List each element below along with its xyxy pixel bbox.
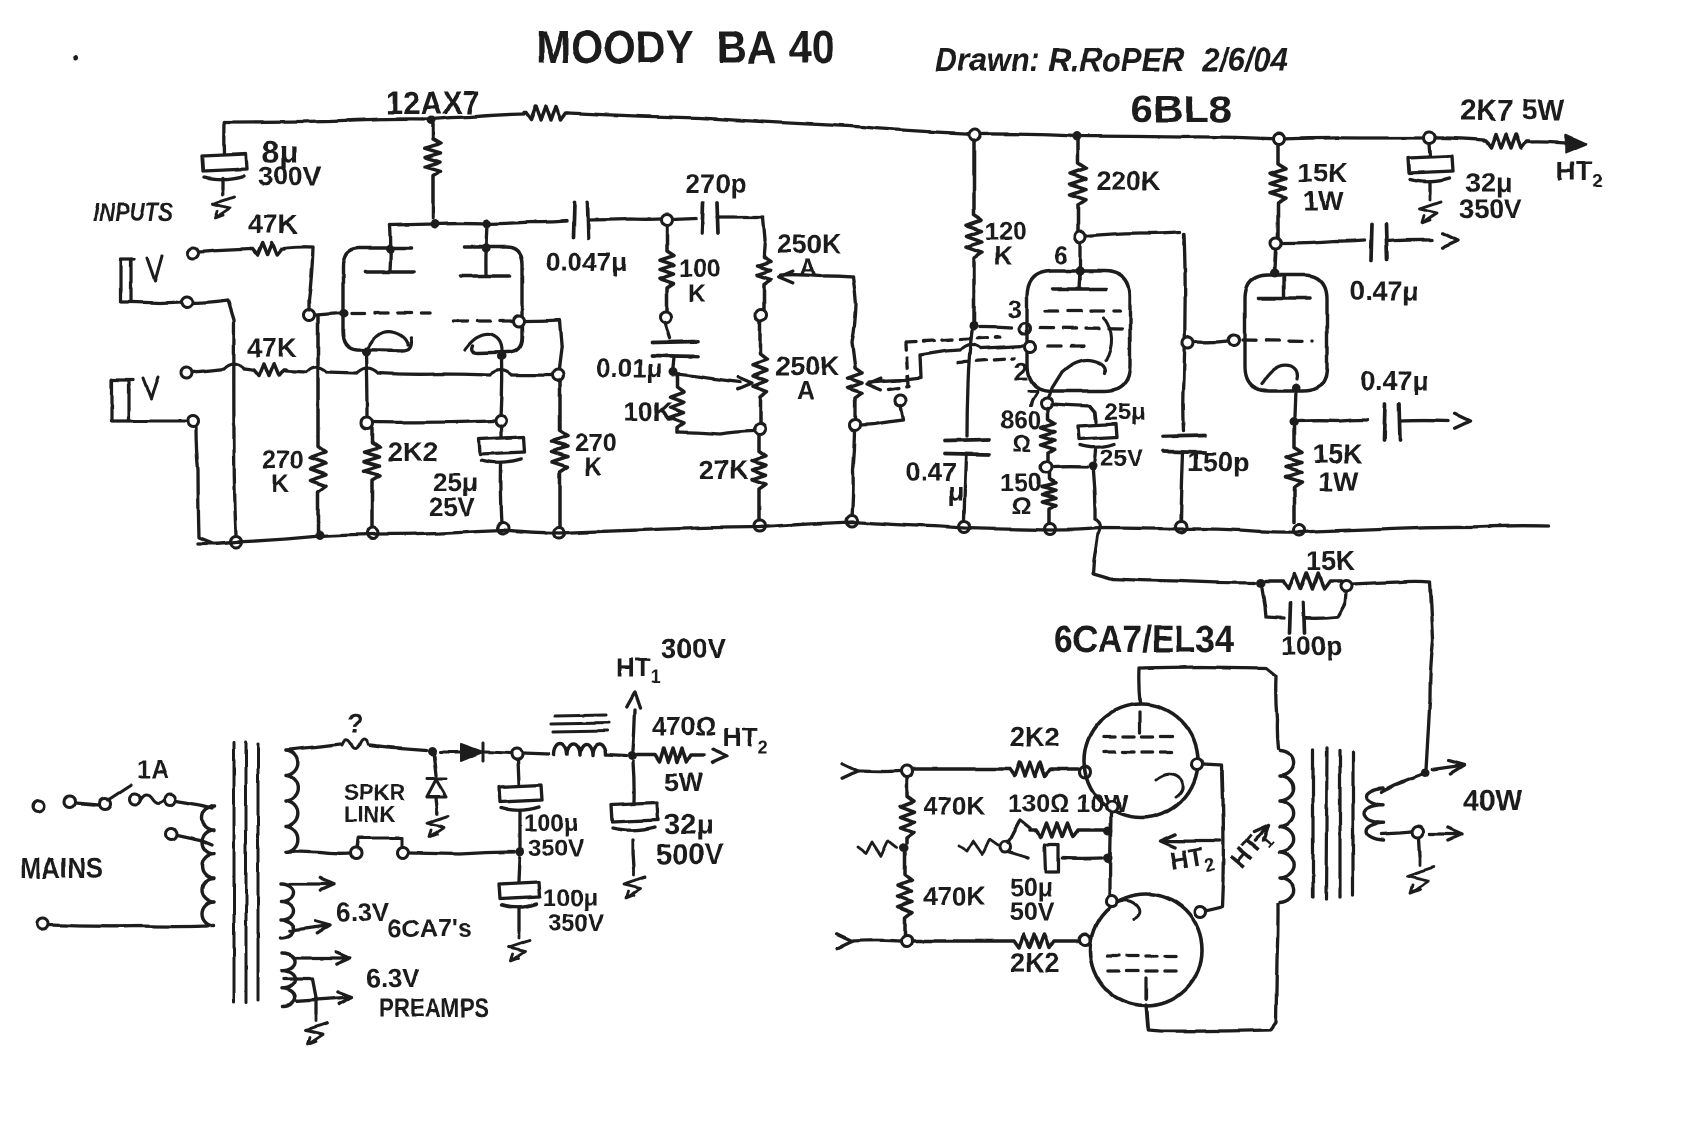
wire cathode vertical — [1110, 813, 1111, 895]
wire fuse to primary — [176, 801, 212, 808]
switch lever — [108, 785, 131, 800]
svg-text:12AX7: 12AX7 — [386, 85, 480, 121]
junction rail/32u — [1424, 133, 1435, 144]
wire thermistor to diode node — [370, 745, 426, 750]
svg-text:0.047μ: 0.047μ — [546, 247, 627, 277]
svg-text:270p: 270p — [685, 169, 747, 199]
output transformer secondary — [1364, 788, 1383, 840]
wire HT2 top rail (left of 47K 1W) — [224, 114, 524, 122]
wire 0.01u to junction — [673, 357, 674, 368]
EL34 lower plate tick — [1144, 978, 1147, 999]
svg-text:HT2: HT2 — [1556, 156, 1603, 192]
terminal EL34 upper cathode — [1107, 802, 1118, 813]
terminal mains L2 — [65, 797, 76, 808]
junction 0.47u / rail — [959, 522, 970, 533]
wire 100p left leg — [1262, 588, 1284, 618]
svg-text:HT1: HT1 — [1225, 823, 1278, 877]
wire left cathode lead — [366, 354, 367, 419]
wire node down to 0.47u — [967, 331, 972, 436]
junction left plate lead/envelope — [386, 245, 395, 254]
12AX7 left plate bar — [365, 270, 414, 274]
svg-text:6CA7/EL34: 6CA7/EL34 — [1054, 619, 1234, 661]
svg-text:100μ: 100μ — [524, 810, 579, 837]
diode rectifier — [440, 743, 510, 761]
shield outline (dashed) top — [906, 337, 1000, 342]
wire rectifier to choke — [523, 753, 549, 754]
bias feed squiggle lower — [959, 839, 999, 854]
resistor 860R — [1041, 408, 1055, 462]
wire HT1 arrow shaft — [633, 710, 635, 751]
svg-text:25μ: 25μ — [1104, 399, 1145, 426]
wire input lower — [852, 939, 900, 943]
wire feedback rail jog — [1095, 519, 1100, 534]
wire 150p to rail — [1181, 452, 1183, 523]
6BL8 triode cathode arc — [1262, 365, 1297, 384]
svg-text:27K: 27K — [699, 455, 749, 485]
wire node to pin3 — [980, 327, 1012, 328]
wire screens tie — [1203, 764, 1223, 911]
protection diode — [427, 779, 446, 797]
wire tap to primary — [177, 835, 212, 845]
arrow output 1 (to EL34 grid) — [1443, 233, 1458, 247]
wire cathode bus — [373, 421, 495, 422]
12AX7 right cathode arc — [465, 334, 502, 351]
capacitor 8u 300V — [202, 154, 247, 179]
6BL8 pentode cathode arc — [1062, 360, 1105, 373]
shield outline (dashed) lower — [958, 358, 1014, 362]
svg-text:2K2: 2K2 — [1010, 722, 1060, 752]
wire to pot2 wiper arrow — [676, 374, 740, 382]
capacitor 25u 25V (12AX7 cathode) — [479, 437, 524, 462]
svg-text:47K: 47K — [248, 209, 298, 239]
junction rail/220K — [427, 116, 436, 125]
node cathode network left — [1000, 842, 1011, 853]
resistor 470R 5W — [637, 748, 704, 762]
surge thermistor squiggle — [342, 740, 368, 749]
svg-text:0.01μ: 0.01μ — [596, 353, 663, 383]
resistor 2K2 (upper grid) — [913, 762, 1078, 776]
resistor 15K 1W (cathode) — [1286, 427, 1302, 522]
junction 150R / rail — [1045, 524, 1056, 535]
arrow 6.3V 6CA7 bottom — [290, 921, 330, 933]
svg-text:15K: 15K — [1306, 546, 1356, 576]
svg-text:2K2: 2K2 — [1010, 948, 1060, 978]
svg-text:32μ: 32μ — [664, 809, 714, 841]
junction rail/15K — [1274, 134, 1285, 145]
resistor 47K (input 2 grid stopper) — [252, 364, 286, 376]
terminal jack 1 tip — [188, 248, 199, 259]
svg-text:K: K — [994, 242, 1012, 270]
wire HT2 top rail (47K1W to 2K7) — [568, 113, 1484, 140]
6BL8 triode plate bar — [1258, 276, 1310, 298]
resistor 47K (input 1 grid stopper) — [251, 243, 284, 255]
terminal 6BL8 pin 7 — [1042, 398, 1053, 409]
node vol pot bottom — [850, 420, 861, 431]
arrow HT2 supply out — [712, 750, 727, 763]
wire 0.47u to rail — [964, 456, 966, 522]
wire 2K7 to HT2 arrow — [1528, 142, 1566, 143]
ground (8u cap) — [213, 189, 234, 218]
junction grid/150p branch — [1183, 338, 1194, 349]
svg-text:Drawn: R.RoPER 2/6/04: Drawn: R.RoPER 2/6/04 — [935, 41, 1288, 78]
6BL8 triode grid (dashed) — [1243, 340, 1312, 341]
terminal switch throw — [130, 794, 141, 805]
stray ink dot — [74, 56, 79, 61]
svg-text:6BL8: 6BL8 — [1130, 89, 1232, 130]
arrow HT1 output — [627, 692, 641, 708]
terminal EL34 upper grid — [1080, 767, 1091, 778]
wire vol pot to node — [853, 400, 856, 420]
EL34 lower grid row1 (dashed) — [1108, 954, 1184, 957]
svg-text:K: K — [271, 470, 289, 498]
wire right grid out — [525, 320, 562, 369]
svg-text:INPUTS: INPUTS — [93, 197, 174, 227]
terminal wiper tag — [895, 395, 906, 406]
resistor 470K (lower) — [898, 853, 912, 935]
svg-text:A: A — [799, 254, 817, 282]
wire hop over right cathode lead — [490, 370, 512, 375]
capacitor 0.47u (output 1) — [1371, 224, 1387, 260]
arrow 6.3V 6CA7 top — [290, 878, 334, 890]
6BL8 pentode grid3 (dashed) — [1045, 309, 1120, 312]
capacitor 32u 500V — [611, 803, 658, 830]
wire jack1 body to sleeve contact — [134, 302, 181, 303]
wire HT secondary top — [286, 744, 340, 750]
EL34 lower grid row2 (dashed) — [1108, 969, 1184, 972]
output transformer core line 4 — [1351, 752, 1354, 895]
junction rail/220K-2 — [1073, 132, 1082, 141]
wire 100K node to 0.01u — [665, 322, 670, 338]
wire cathode node to 25u — [499, 426, 502, 437]
svg-text:μ: μ — [948, 476, 964, 506]
input jack 1 body — [121, 259, 134, 302]
wire anode to 0.47u out1 — [1282, 240, 1365, 243]
output transformer core line 3 — [1338, 750, 1341, 897]
wire 12AX7 right plate lead — [486, 224, 487, 275]
wire secondary bottom lead — [1381, 832, 1412, 834]
EL34 lower cathode curl — [1112, 900, 1140, 919]
ground (speaker return) — [1408, 857, 1434, 893]
terminal triode grid — [1229, 335, 1240, 346]
potentiometer 250K-A #2 (bass) — [753, 321, 767, 423]
wire link to HT secondary bottom — [286, 851, 350, 853]
wire 25u to node — [1095, 450, 1096, 461]
EL34 upper grid row2 (dashed) — [1104, 750, 1180, 753]
capacitor 25u (6BL8 cathode) — [1078, 424, 1117, 447]
resistor 130R 10W — [1030, 823, 1104, 837]
wire link node left — [410, 852, 514, 854]
svg-text:?: ? — [347, 709, 364, 739]
wire rail to 8u cap — [222, 122, 225, 154]
svg-text:HT2: HT2 — [723, 722, 768, 757]
svg-text:15K: 15K — [1298, 158, 1348, 188]
12AX7 envelope (left half) — [343, 248, 412, 351]
wire hop over 0.47u lead — [960, 344, 981, 350]
wire OT primary bottom to lower plate — [1146, 905, 1278, 1031]
junction 27K / rail — [755, 521, 766, 532]
junction left grid/envelope — [340, 309, 349, 318]
junction left cathode/envelope — [362, 348, 371, 357]
node 120K/pin3/0.47u — [970, 322, 979, 331]
wire jack1 sleeve to ground rail — [193, 300, 236, 536]
capacitor 0.01u — [652, 342, 698, 357]
wire hop over left cathode lead — [356, 368, 378, 373]
wire left grid to pin — [316, 313, 341, 315]
svg-text:47K: 47K — [247, 333, 297, 363]
wire 25u to rail — [501, 464, 502, 524]
wire jack1 tip to 47K — [199, 249, 251, 252]
arrow 6.3V preamp top — [295, 952, 350, 964]
junction anode wire / right plate — [483, 220, 492, 229]
resistor 270K (grid 2 leak) — [552, 380, 568, 530]
wire input upper — [858, 769, 900, 773]
terminal EL34 lower grid — [1080, 935, 1091, 946]
wire 0.047u to node — [588, 219, 661, 220]
svg-text:350V: 350V — [548, 910, 604, 937]
bias feed squiggle upper — [858, 841, 897, 856]
wire 8u to ground — [221, 178, 224, 189]
node upper grid network — [902, 766, 913, 777]
wire choke to HT1 node — [606, 755, 626, 756]
6BL8 pentode plate bar — [1053, 272, 1106, 289]
12AX7 left cathode arc — [366, 332, 408, 352]
12AX7 right grid (dashed) — [454, 319, 512, 322]
arrow input lower (from PI) — [837, 934, 852, 948]
ground (100u #2) — [509, 932, 530, 961]
svg-text:6.3V: 6.3V — [336, 897, 390, 927]
junction right cathode/envelope — [498, 352, 507, 361]
capacitor 0.047u (coupling) — [574, 203, 589, 238]
resistor 220K (12AX7 anode load) — [425, 124, 441, 218]
svg-text:1W: 1W — [1318, 467, 1359, 497]
wire vol pot bottom to rail — [852, 431, 855, 517]
svg-text:1A: 1A — [137, 756, 169, 784]
svg-text:Ω: Ω — [1012, 493, 1031, 520]
node OT secondary bottom — [1413, 827, 1424, 838]
junction 50u/cathode line — [1104, 854, 1113, 863]
input jack 2 body — [112, 380, 133, 421]
wire 12AX7 left plate lead — [388, 225, 392, 271]
junction right plate lead/envelope — [482, 244, 491, 253]
node grid2 / 270K — [553, 370, 564, 381]
terminal EL34 upper screen — [1192, 759, 1203, 770]
junction 220K/anode wire — [431, 220, 440, 229]
capacitor 0.47u (output 2) — [1384, 404, 1400, 440]
choke core lines — [551, 715, 609, 732]
input jack 1 spring contact — [147, 256, 162, 281]
arrow speaker - — [1430, 828, 1462, 841]
svg-text:MOODY BA 40: MOODY BA 40 — [536, 21, 835, 73]
node 0.01u/10K/wiper2 — [669, 368, 678, 377]
svg-text:MAINS: MAINS — [20, 853, 103, 885]
node 100K/0.01u — [661, 312, 672, 323]
terminal jack 2 tip — [181, 368, 192, 379]
input jack 2 sleeve wire — [133, 420, 186, 423]
capacitor 32u 350V — [1408, 156, 1453, 181]
ground (32u 500V) — [624, 869, 645, 898]
wire jack2 tip to hop — [192, 369, 224, 372]
node left cathode bias — [362, 418, 373, 429]
capacitor 270p (bright) — [702, 203, 718, 233]
junction triode cathode/envelope — [1292, 384, 1301, 393]
wire pin6 lead — [1078, 243, 1081, 268]
node HT1 — [628, 752, 637, 761]
resistor 120K — [966, 140, 982, 321]
output transformer core line 1 — [1311, 750, 1314, 897]
svg-text:2K7 5W: 2K7 5W — [1460, 95, 1565, 127]
arrow 6.3V preamp bottom — [297, 992, 352, 1004]
arrow output 2 (to EL34 grid) — [1455, 414, 1470, 428]
shield outline (dashed) left — [889, 386, 909, 389]
wire mains N to primary — [49, 925, 208, 927]
wire 100p right leg — [1304, 592, 1346, 618]
junction 15K / rail — [1294, 525, 1305, 536]
node triode cathode out — [1290, 418, 1299, 427]
wire secondary top lead — [1381, 775, 1421, 792]
wire triode grid to 150p node — [1196, 341, 1228, 342]
resistor 47K 1W (rail dropper) — [524, 106, 568, 120]
wire feedback to 15K — [1093, 534, 1255, 583]
wire secondary to ground — [1419, 838, 1420, 856]
svg-text:15K: 15K — [1313, 439, 1363, 469]
resistor 15K 1W (triode anode) — [1270, 144, 1286, 238]
wire 100u2 drop — [519, 858, 520, 881]
svg-text:6.3V: 6.3V — [366, 963, 420, 993]
svg-text:6CA7's: 6CA7's — [388, 915, 472, 943]
node bias upper — [900, 844, 909, 853]
svg-text:25V: 25V — [429, 492, 476, 522]
junction vol pot / rail — [847, 516, 858, 527]
node rectifier input — [428, 747, 437, 756]
wire rectifier node to 100u — [518, 760, 519, 784]
terminal EL34 lower screen — [1195, 907, 1206, 918]
capacitor 100u 350V #2 — [499, 882, 540, 907]
svg-text:0.47μ: 0.47μ — [1360, 366, 1429, 396]
fuse squiggle 1A — [140, 795, 165, 804]
svg-text:PREAMPS: PREAMPS — [379, 993, 489, 1023]
arrow HT1 to primary CT — [1254, 825, 1269, 841]
junction rail left end — [231, 537, 242, 548]
svg-text:0.47μ: 0.47μ — [1350, 276, 1419, 306]
6BL8 pentode grid2 (dashed) — [1040, 328, 1125, 329]
svg-text:100p: 100p — [1281, 631, 1343, 661]
node 25u bottom / feedback — [1089, 462, 1098, 471]
EL34 upper grid row1 (dashed) — [1104, 735, 1180, 738]
node feedback/15K/100p — [1257, 579, 1266, 588]
wire 32u 500V to gnd — [633, 840, 634, 868]
arrow HT2 output — [1566, 135, 1586, 152]
svg-text:5W: 5W — [664, 767, 703, 797]
potentiometer 250K-A #1 (treble) — [757, 255, 771, 309]
resistor 2K2 (lower grid) — [913, 934, 1078, 948]
svg-text:3: 3 — [1008, 296, 1022, 324]
ground (6.3V CT) — [306, 1015, 327, 1044]
wire wiper tag strap — [861, 405, 903, 425]
wire 32u to gnd — [1428, 182, 1431, 194]
arrow HT2 to screens — [1160, 835, 1175, 848]
capacitor 150p — [1163, 436, 1205, 453]
EL34 upper cathode curl — [1156, 774, 1183, 797]
terminal jack 2 sleeve contact — [188, 416, 199, 427]
terminal speaker link right — [398, 848, 409, 859]
wire 12AX7 anode bus — [390, 221, 567, 225]
wire 47K to grid corner — [284, 247, 313, 310]
6BL8 pentode envelope — [1027, 271, 1130, 391]
junction pin6/envelope — [1076, 267, 1085, 276]
mains transformer core line 3 — [257, 744, 260, 1000]
junction rail/120K — [970, 130, 981, 141]
svg-text:350V: 350V — [528, 835, 584, 862]
12AX7 envelope (right half) — [464, 247, 522, 353]
svg-text:470Ω: 470Ω — [652, 711, 716, 741]
wire vol wiper to shielded run — [869, 350, 960, 382]
wire hop4 to grid2 node — [512, 373, 551, 376]
terminal jack 1 sleeve contact — [182, 297, 193, 308]
wire volume pot drop — [852, 277, 856, 366]
svg-text:500V: 500V — [656, 839, 724, 871]
speaker link strap — [357, 838, 402, 847]
terminal EL34 lower cathode — [1107, 896, 1118, 907]
svg-text:K: K — [688, 280, 706, 308]
svg-text:1W: 1W — [1303, 186, 1344, 216]
wire anode node to 150p branch — [1086, 232, 1180, 236]
resistor 27K (divider) — [752, 435, 766, 521]
wire HT1 node to 32u — [633, 762, 634, 802]
wire feedback to OT — [1352, 581, 1433, 770]
wiper arrow volume pot — [867, 378, 881, 390]
wire hop over 270K line — [306, 367, 327, 372]
svg-text:6: 6 — [1054, 242, 1068, 270]
wire protection diode drop — [434, 756, 436, 776]
wire 47K2 to hop2 — [286, 371, 306, 372]
6BL8 triode envelope — [1245, 275, 1327, 391]
EL34 upper envelope — [1084, 704, 1198, 818]
node OT secondary top / feedback — [1421, 769, 1430, 778]
wire 150p branch drop — [1183, 234, 1185, 431]
wire rail to 32u — [1429, 144, 1430, 156]
svg-text:350V: 350V — [1459, 194, 1522, 224]
svg-text:25V: 25V — [1100, 445, 1143, 472]
wire hop3 to hop4 — [378, 373, 490, 375]
resistor 100K (tone) — [660, 226, 674, 311]
wire 270p to pot1 top — [717, 217, 765, 253]
shield outline (dashed) vertical — [906, 344, 908, 386]
wire triode cathode lead — [1295, 390, 1296, 417]
wiper arrow pot2 — [738, 377, 752, 389]
svg-text:HT2: HT2 — [1168, 841, 1216, 881]
node pot1/pot2 — [756, 310, 767, 321]
12AX7 right plate bar — [461, 274, 509, 278]
output transformer core line 2 — [1326, 748, 1327, 899]
wire 6.3V centre tap — [284, 979, 316, 1014]
wire pin7 to 25u — [1052, 404, 1096, 422]
resistor 470K (upper) — [900, 777, 914, 843]
wire jack2 sleeve to rail — [196, 427, 229, 544]
svg-text:470K: 470K — [923, 881, 985, 911]
wire 50u to cathode line — [1062, 856, 1102, 860]
diode rectifier triangle — [461, 744, 483, 761]
resistor 2K2 (cathode bias) — [364, 428, 380, 530]
resistor 2K7 5W (HT2 feed) — [1484, 134, 1528, 148]
resistor 15K (feedback) — [1266, 573, 1341, 589]
EL34 lower envelope — [1090, 894, 1202, 1006]
wire protection diode to gnd — [436, 798, 437, 807]
node triode anode — [1271, 238, 1282, 249]
svg-text:100: 100 — [679, 255, 721, 283]
svg-text:K: K — [584, 453, 602, 481]
mains transformer primary — [202, 806, 214, 926]
svg-text:470K: 470K — [923, 791, 985, 821]
